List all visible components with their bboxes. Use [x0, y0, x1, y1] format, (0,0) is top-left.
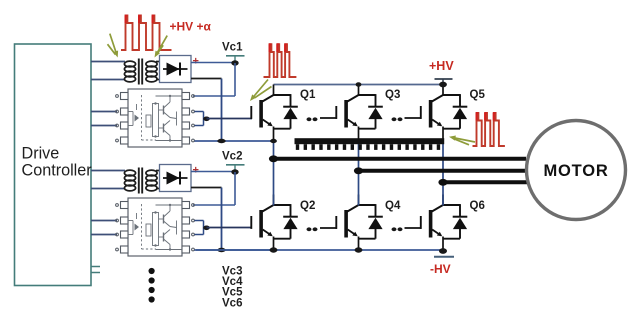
svg-text:Controller: Controller	[22, 162, 93, 180]
svg-text:+: +	[193, 56, 199, 68]
svg-text:Vc1: Vc1	[222, 42, 243, 54]
svg-text:Q2: Q2	[300, 200, 315, 212]
svg-text:+HV: +HV	[429, 59, 454, 73]
svg-text:+HV +α: +HV +α	[170, 20, 212, 34]
svg-text:-HV: -HV	[430, 262, 451, 276]
svg-text:Q3: Q3	[385, 89, 400, 101]
svg-text:Q5: Q5	[470, 89, 486, 101]
svg-text:+: +	[193, 165, 199, 177]
svg-text:Q1: Q1	[300, 89, 316, 101]
svg-text:Drive: Drive	[22, 145, 60, 163]
svg-text:Vc2: Vc2	[222, 151, 242, 163]
svg-text:MOTOR: MOTOR	[543, 162, 608, 180]
svg-text:Q4: Q4	[385, 200, 401, 212]
svg-text:Vc6: Vc6	[222, 298, 242, 310]
svg-text:Q6: Q6	[470, 200, 485, 212]
